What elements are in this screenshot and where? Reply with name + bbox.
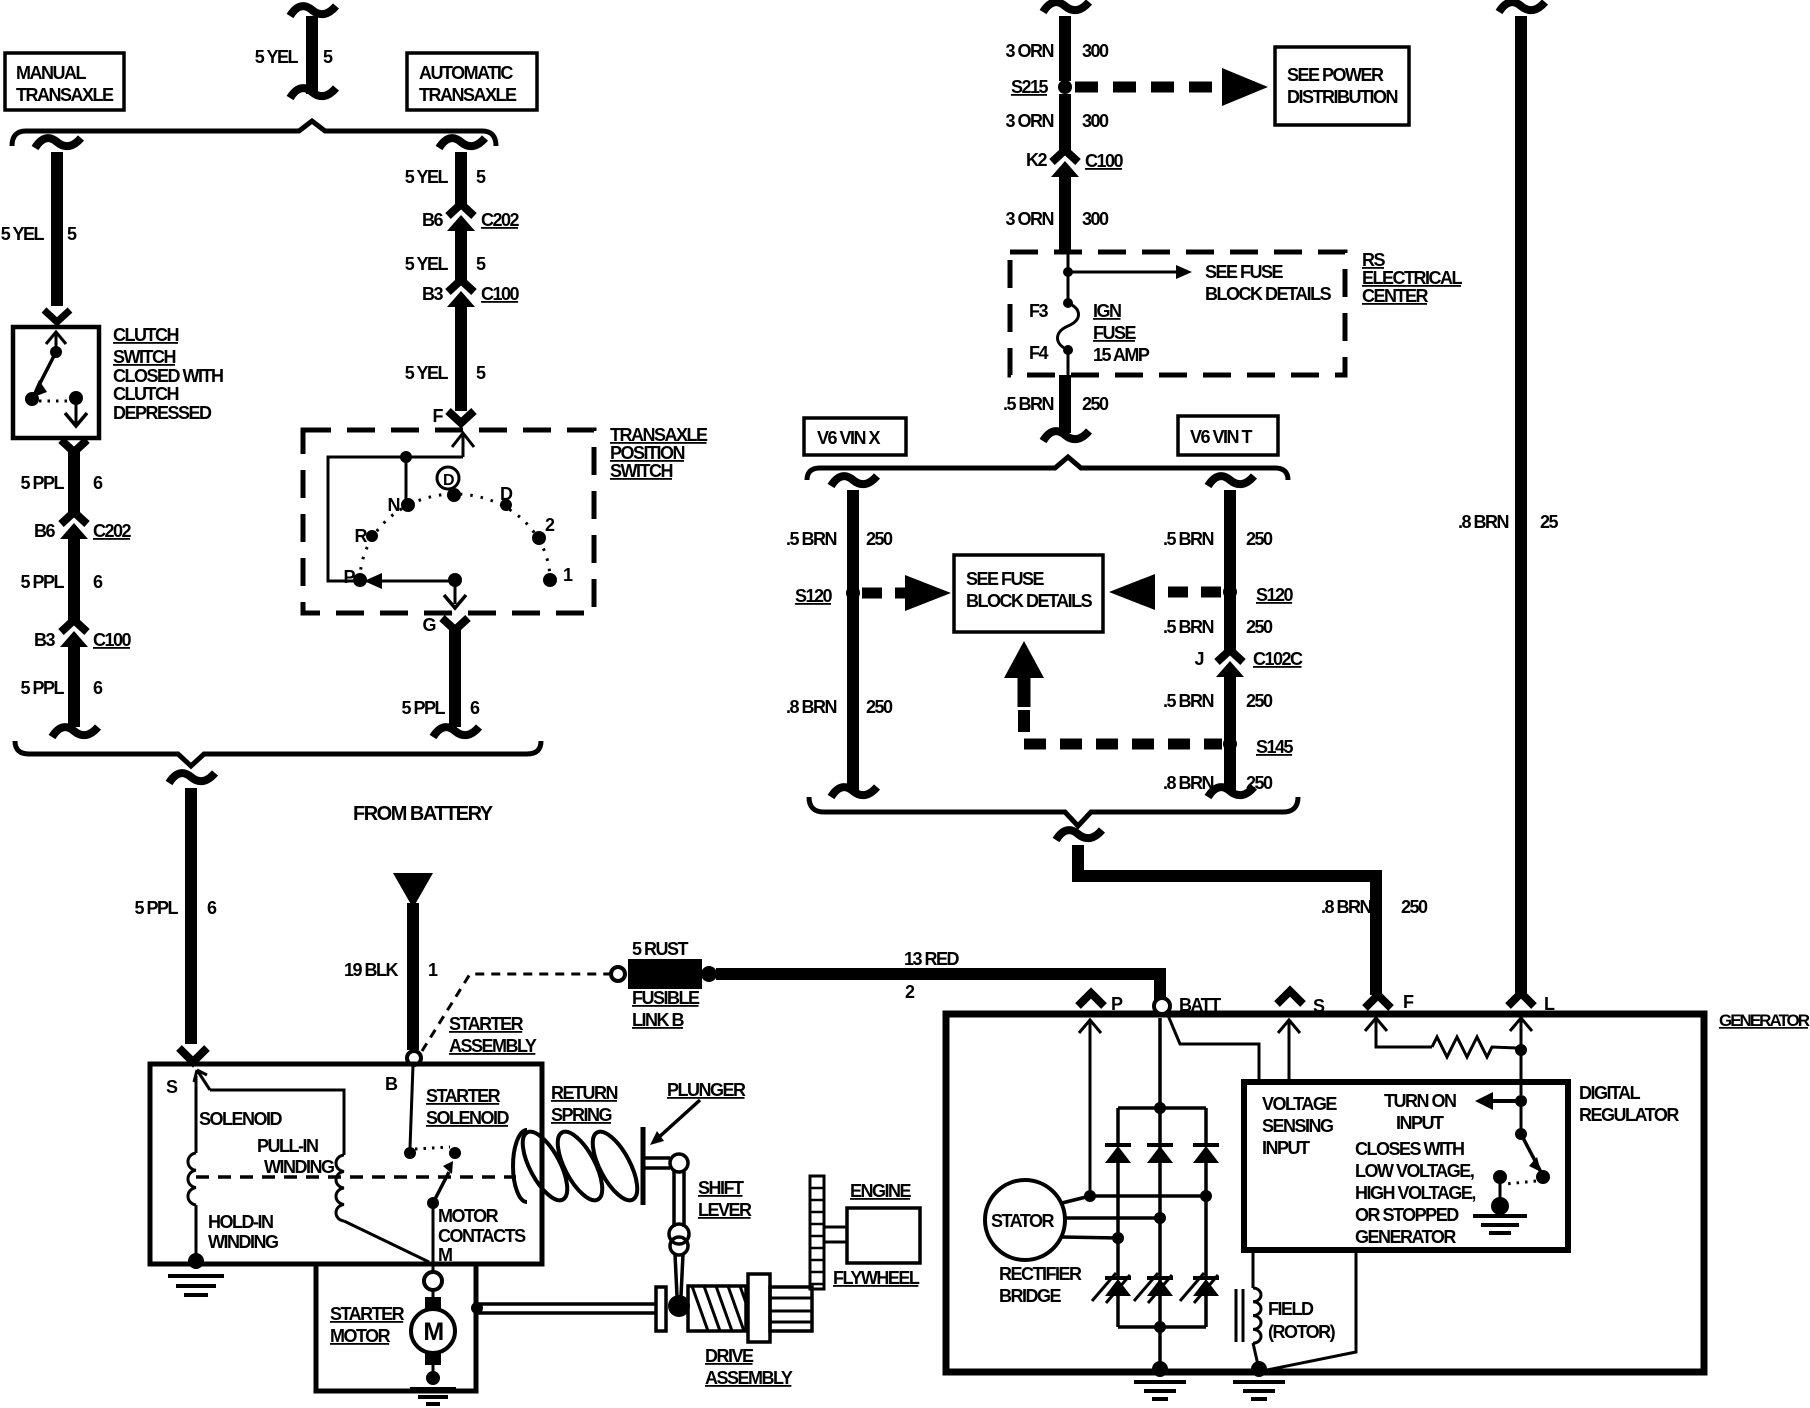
- svg-text:WINDING: WINDING: [264, 1157, 334, 1177]
- svg-text:5 RUST: 5 RUST: [632, 939, 689, 959]
- svg-text:13 RED: 13 RED: [904, 949, 960, 969]
- svg-text:M: M: [438, 1245, 452, 1265]
- svg-text:5 PPL: 5 PPL: [20, 678, 64, 698]
- svg-text:SOLENOID: SOLENOID: [199, 1109, 283, 1129]
- svg-text:AUTOMATIC: AUTOMATIC: [419, 63, 513, 83]
- svg-text:L: L: [1544, 994, 1555, 1014]
- svg-text:300: 300: [1082, 41, 1109, 61]
- svg-text:.5 BRN: .5 BRN: [1163, 617, 1214, 637]
- svg-text:.5 BRN: .5 BRN: [1003, 394, 1054, 414]
- svg-text:DRIVE: DRIVE: [705, 1346, 754, 1366]
- svg-text:FLYWHEEL: FLYWHEEL: [833, 1268, 920, 1288]
- svg-text:SEE FUSE: SEE FUSE: [1205, 262, 1284, 282]
- svg-text:TRANSAXLE: TRANSAXLE: [16, 85, 114, 105]
- svg-text:FUSIBLE: FUSIBLE: [632, 988, 700, 1008]
- svg-text:P: P: [1111, 994, 1123, 1014]
- svg-text:F4: F4: [1029, 343, 1048, 363]
- svg-text:V6 VIN X: V6 VIN X: [817, 428, 881, 448]
- svg-text:S145: S145: [1256, 737, 1294, 757]
- svg-text:IGN: IGN: [1093, 301, 1121, 321]
- svg-text:250: 250: [866, 529, 893, 549]
- svg-text:ASSEMBLY: ASSEMBLY: [449, 1036, 537, 1056]
- svg-text:5 YEL: 5 YEL: [405, 254, 449, 274]
- svg-text:5: 5: [476, 363, 486, 383]
- svg-text:REGULATOR: REGULATOR: [1579, 1105, 1679, 1125]
- svg-text:STARTER: STARTER: [426, 1086, 501, 1106]
- svg-text:B3: B3: [34, 630, 55, 650]
- svg-text:ASSEMBLY: ASSEMBLY: [705, 1368, 793, 1388]
- svg-text:MANUAL: MANUAL: [16, 63, 86, 83]
- svg-text:DISTRIBUTION: DISTRIBUTION: [1287, 87, 1397, 107]
- svg-text:INPUT: INPUT: [1262, 1138, 1310, 1158]
- svg-text:5 PPL: 5 PPL: [401, 698, 445, 718]
- svg-text:250: 250: [1401, 897, 1428, 917]
- svg-text:250: 250: [1246, 773, 1273, 793]
- svg-text:HIGH VOLTAGE,: HIGH VOLTAGE,: [1355, 1183, 1475, 1203]
- svg-text:3 ORN: 3 ORN: [1005, 209, 1053, 229]
- svg-text:.8 BRN: .8 BRN: [1321, 897, 1372, 917]
- svg-text:FUSE: FUSE: [1093, 323, 1137, 343]
- svg-text:J: J: [1194, 649, 1203, 669]
- svg-text:5 YEL: 5 YEL: [1, 224, 45, 244]
- svg-text:SEE FUSE: SEE FUSE: [966, 569, 1045, 589]
- svg-text:S: S: [166, 1077, 178, 1097]
- svg-text:5: 5: [67, 224, 77, 244]
- svg-text:6: 6: [93, 678, 103, 698]
- svg-text:S215: S215: [1011, 77, 1049, 97]
- svg-text:V6 VIN T: V6 VIN T: [1190, 427, 1253, 447]
- svg-text:3 ORN: 3 ORN: [1005, 111, 1053, 131]
- svg-text:CENTER: CENTER: [1362, 286, 1429, 306]
- svg-text:TRANSAXLE: TRANSAXLE: [610, 425, 708, 445]
- svg-text:.8 BRN: .8 BRN: [786, 697, 837, 717]
- svg-text:B3: B3: [422, 284, 443, 304]
- svg-text:6: 6: [470, 698, 480, 718]
- svg-text:K2: K2: [1026, 150, 1047, 170]
- svg-text:HOLD-IN: HOLD-IN: [208, 1212, 273, 1232]
- svg-text:250: 250: [1246, 691, 1273, 711]
- svg-text:OR STOPPED: OR STOPPED: [1355, 1205, 1459, 1225]
- svg-text:SENSING: SENSING: [1262, 1116, 1333, 1136]
- svg-text:GENERATOR: GENERATOR: [1719, 1011, 1810, 1030]
- svg-text:C100: C100: [1085, 151, 1124, 171]
- svg-text:C202: C202: [481, 210, 520, 230]
- svg-text:D: D: [500, 484, 513, 504]
- svg-text:STARTER: STARTER: [330, 1304, 405, 1324]
- svg-text:MOTOR: MOTOR: [438, 1206, 499, 1226]
- svg-text:ENGINE: ENGINE: [850, 1181, 912, 1201]
- svg-text:250: 250: [1246, 617, 1273, 637]
- svg-text:INPUT: INPUT: [1396, 1113, 1444, 1133]
- svg-text:5 PPL: 5 PPL: [134, 898, 178, 918]
- svg-text:5: 5: [476, 167, 486, 187]
- svg-text:B6: B6: [422, 210, 443, 230]
- svg-text:CLUTCH: CLUTCH: [113, 325, 178, 345]
- svg-text:2: 2: [545, 515, 555, 535]
- svg-text:CLOSED WITH: CLOSED WITH: [113, 366, 223, 386]
- svg-text:S120: S120: [1256, 585, 1294, 605]
- svg-text:LOW VOLTAGE,: LOW VOLTAGE,: [1355, 1161, 1474, 1181]
- svg-text:PULL-IN: PULL-IN: [257, 1136, 318, 1156]
- svg-text:G: G: [422, 615, 435, 635]
- svg-text:15 AMP: 15 AMP: [1093, 345, 1150, 365]
- svg-text:.5 BRN: .5 BRN: [786, 529, 837, 549]
- svg-text:PLUNGER: PLUNGER: [667, 1080, 746, 1100]
- svg-text:D: D: [443, 472, 454, 489]
- svg-text:BATT: BATT: [1179, 995, 1221, 1015]
- svg-text:CLOSES WITH: CLOSES WITH: [1355, 1139, 1464, 1159]
- svg-text:P: P: [343, 567, 355, 587]
- svg-text:S: S: [1313, 996, 1325, 1016]
- svg-text:1: 1: [563, 565, 573, 585]
- svg-text:25: 25: [1540, 512, 1559, 532]
- svg-text:SEE POWER: SEE POWER: [1287, 65, 1384, 85]
- svg-text:WINDING: WINDING: [208, 1232, 278, 1252]
- svg-text:BLOCK DETAILS: BLOCK DETAILS: [1205, 284, 1332, 304]
- svg-text:5 PPL: 5 PPL: [20, 572, 64, 592]
- svg-text:DIGITAL: DIGITAL: [1579, 1083, 1641, 1103]
- svg-text:M: M: [423, 1318, 443, 1346]
- svg-text:1: 1: [428, 960, 438, 980]
- svg-text:250: 250: [1082, 394, 1109, 414]
- svg-text:CONTACTS: CONTACTS: [438, 1226, 526, 1246]
- svg-text:DEPRESSED: DEPRESSED: [113, 403, 212, 423]
- svg-text:LINK B: LINK B: [632, 1010, 684, 1030]
- svg-text:2: 2: [905, 982, 915, 1002]
- svg-text:300: 300: [1082, 209, 1109, 229]
- svg-text:.5 BRN: .5 BRN: [1163, 529, 1214, 549]
- svg-text:5: 5: [323, 47, 333, 67]
- svg-text:19 BLK: 19 BLK: [344, 960, 399, 980]
- svg-text:SWITCH: SWITCH: [113, 347, 175, 367]
- svg-text:6: 6: [93, 572, 103, 592]
- svg-text:C100: C100: [93, 630, 132, 650]
- svg-text:TURN ON: TURN ON: [1384, 1091, 1456, 1111]
- svg-text:SHIFT: SHIFT: [698, 1178, 744, 1198]
- svg-text:R: R: [355, 526, 368, 546]
- svg-text:250: 250: [866, 697, 893, 717]
- svg-text:300: 300: [1082, 111, 1109, 131]
- svg-text:RECTIFIER: RECTIFIER: [999, 1264, 1082, 1284]
- svg-text:BRIDGE: BRIDGE: [999, 1286, 1061, 1306]
- svg-text:.8 BRN: .8 BRN: [1458, 512, 1509, 532]
- svg-text:LEVER: LEVER: [698, 1200, 752, 1220]
- svg-text:5 YEL: 5 YEL: [255, 47, 299, 67]
- svg-text:VOLTAGE: VOLTAGE: [1262, 1094, 1337, 1114]
- svg-text:.8 BRN: .8 BRN: [1163, 773, 1214, 793]
- svg-text:BLOCK DETAILS: BLOCK DETAILS: [966, 591, 1093, 611]
- svg-text:B6: B6: [34, 521, 55, 541]
- svg-text:.5 BRN: .5 BRN: [1163, 691, 1214, 711]
- svg-text:RS: RS: [1362, 250, 1385, 270]
- svg-text:F: F: [1403, 992, 1414, 1012]
- svg-text:SWITCH: SWITCH: [610, 461, 672, 481]
- svg-text:STARTER: STARTER: [449, 1014, 524, 1034]
- svg-text:CLUTCH: CLUTCH: [113, 384, 178, 404]
- svg-text:C100: C100: [481, 284, 520, 304]
- svg-text:F: F: [433, 406, 444, 426]
- svg-text:6: 6: [93, 473, 103, 493]
- svg-text:5 PPL: 5 PPL: [20, 473, 64, 493]
- svg-text:FROM BATTERY: FROM BATTERY: [353, 803, 494, 825]
- svg-text:ELECTRICAL: ELECTRICAL: [1362, 268, 1462, 288]
- svg-text:5: 5: [476, 254, 486, 274]
- svg-text:C102C: C102C: [1253, 649, 1303, 669]
- svg-text:5 YEL: 5 YEL: [405, 363, 449, 383]
- svg-text:S120: S120: [795, 586, 833, 606]
- svg-text:C202: C202: [93, 521, 132, 541]
- svg-text:FIELD: FIELD: [1268, 1299, 1314, 1319]
- svg-text:B: B: [385, 1074, 398, 1094]
- svg-text:3 ORN: 3 ORN: [1005, 41, 1053, 61]
- svg-text:6: 6: [207, 898, 217, 918]
- svg-text:STATOR: STATOR: [991, 1211, 1054, 1231]
- svg-text:5 YEL: 5 YEL: [405, 167, 449, 187]
- svg-text:(ROTOR): (ROTOR): [1268, 1322, 1336, 1342]
- svg-text:250: 250: [1246, 529, 1273, 549]
- svg-text:POSITION: POSITION: [610, 443, 685, 463]
- svg-text:SPRING: SPRING: [551, 1105, 612, 1125]
- svg-text:SOLENOID: SOLENOID: [426, 1108, 510, 1128]
- svg-text:N: N: [388, 495, 400, 515]
- svg-text:GENERATOR: GENERATOR: [1355, 1227, 1456, 1247]
- svg-text:F3: F3: [1029, 301, 1048, 321]
- svg-text:TRANSAXLE: TRANSAXLE: [419, 85, 517, 105]
- svg-text:MOTOR: MOTOR: [330, 1326, 391, 1346]
- svg-text:RETURN: RETURN: [551, 1083, 617, 1103]
